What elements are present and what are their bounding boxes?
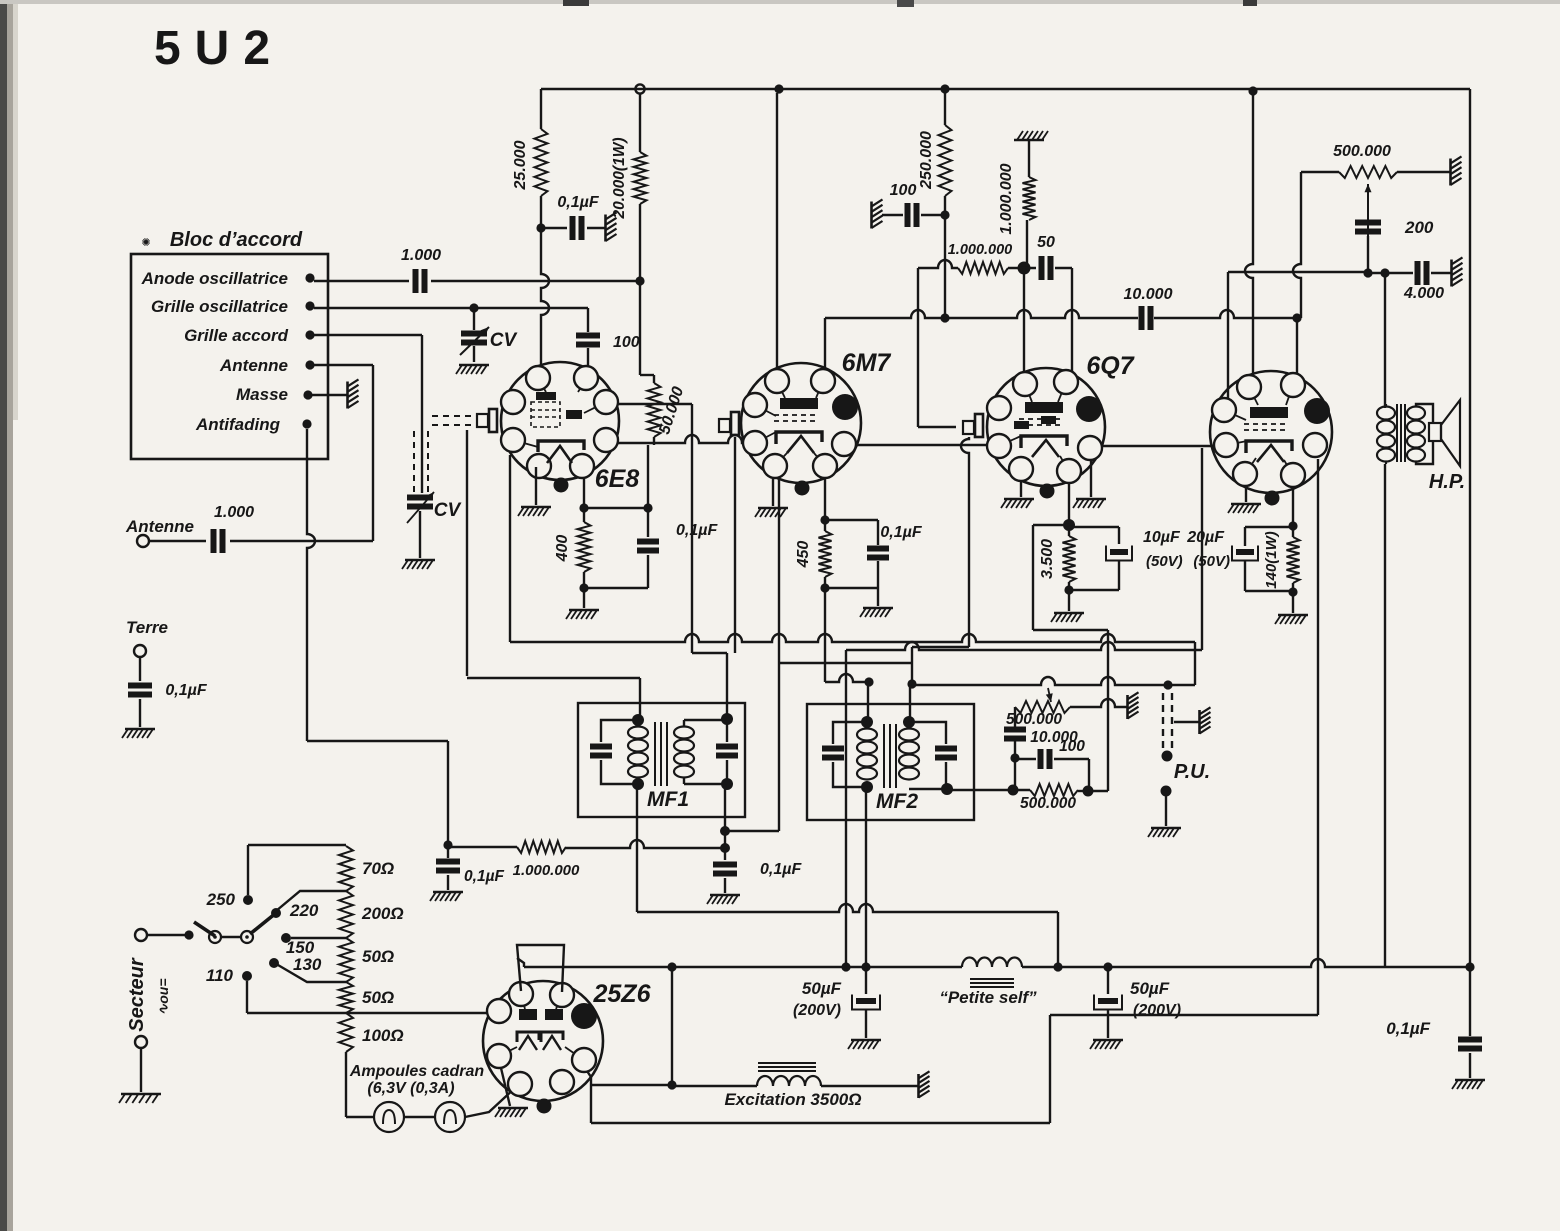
junction bbox=[903, 716, 915, 728]
wire 6Q7 feed bbox=[1023, 268, 1025, 372]
wire MF2 prim bottom bbox=[865, 787, 867, 967]
svg-text:100: 100 bbox=[613, 334, 640, 351]
wire 6Q7 avc loop bbox=[1033, 524, 1069, 526]
svg-text:MF2: MF2 bbox=[876, 790, 918, 813]
wire bbox=[1071, 268, 1073, 373]
resistor pot 500.000 bbox=[1015, 701, 1070, 713]
resistor rheostat 50a bbox=[339, 938, 353, 982]
junction bbox=[940, 210, 949, 219]
capacitor 100 bbox=[905, 203, 911, 227]
speaker H.P. bbox=[1416, 404, 1433, 424]
junction bbox=[632, 714, 644, 726]
svg-text:500.000: 500.000 bbox=[1020, 795, 1076, 812]
junction bbox=[720, 843, 730, 853]
ground bbox=[710, 894, 740, 897]
wire HP prim bottom bbox=[1384, 464, 1386, 966]
tube 6E8 innards bbox=[536, 392, 556, 400]
transformer MF1 box bbox=[578, 703, 745, 817]
capacitor 10uF bbox=[1069, 526, 1119, 528]
ground secteur bbox=[121, 1093, 161, 1096]
wire MF1 sec bottom bbox=[724, 784, 726, 848]
masse bbox=[1450, 260, 1453, 287]
junction bbox=[941, 783, 953, 795]
wire 150 bbox=[291, 937, 346, 939]
wire 25k to 6E8 bbox=[541, 228, 549, 367]
masse bbox=[870, 202, 873, 229]
wire MF2 sec feed bbox=[909, 684, 911, 722]
junction bbox=[861, 716, 873, 728]
resistor 450 bbox=[819, 531, 832, 577]
wiper arrow 2 bbox=[1367, 184, 1369, 252]
node masse bbox=[303, 390, 312, 399]
wire bbox=[1292, 487, 1294, 526]
svg-text:50µF: 50µF bbox=[802, 979, 842, 998]
junction bbox=[1162, 751, 1173, 762]
wire bbox=[314, 280, 409, 282]
tube 25Z6 innards bbox=[519, 1009, 537, 1020]
resistor 250.000 bbox=[944, 93, 946, 125]
junction rail-right bbox=[1248, 86, 1257, 95]
wire bbox=[345, 1052, 347, 1117]
wire bbox=[1008, 267, 1036, 269]
MF1 secondary coil bbox=[674, 727, 694, 739]
junction bbox=[721, 778, 733, 790]
pickup P.U. jack bbox=[1162, 693, 1164, 750]
wire bbox=[587, 227, 606, 229]
MF1 left cap bbox=[601, 720, 638, 742]
ground 1M top bbox=[1014, 139, 1044, 142]
junction bbox=[1064, 585, 1073, 594]
wire anode row bbox=[524, 966, 962, 968]
ground bbox=[877, 588, 879, 606]
wire bbox=[590, 1085, 592, 1123]
svg-text:Terre: Terre bbox=[126, 618, 168, 637]
capacitor 100 bbox=[576, 333, 600, 339]
masse bbox=[346, 382, 349, 409]
wire bbox=[473, 346, 475, 362]
wire heater 6Q7-out bbox=[1101, 445, 1215, 447]
wire bbox=[1165, 796, 1167, 826]
masse bbox=[917, 1074, 920, 1098]
node B+ rail bbox=[541, 88, 1470, 90]
capacitor 0,1uF terre bbox=[128, 683, 152, 689]
svg-text:130: 130 bbox=[293, 955, 322, 974]
tube 6Q7 innards bbox=[1025, 402, 1063, 413]
ground 6E8 bbox=[535, 467, 537, 505]
wire bbox=[587, 308, 589, 332]
junction bbox=[720, 826, 730, 836]
svg-text:10.000: 10.000 bbox=[1124, 286, 1173, 303]
wire bbox=[149, 540, 206, 542]
wire bbox=[541, 227, 567, 229]
svg-text:MF1: MF1 bbox=[647, 788, 689, 811]
ground 6Q7 b bbox=[1090, 460, 1092, 497]
svg-text:1.000.000: 1.000.000 bbox=[513, 862, 580, 879]
resistor rheostat 100 bbox=[339, 1013, 353, 1052]
wire bbox=[918, 260, 958, 268]
shielded line dashed bbox=[432, 415, 476, 417]
wire 250 bbox=[247, 845, 249, 895]
transformer MF2 box bbox=[807, 704, 974, 820]
node antifading bbox=[302, 419, 311, 428]
node anode osc bbox=[305, 273, 314, 282]
wire bbox=[867, 682, 869, 722]
junction bbox=[1103, 962, 1112, 971]
svg-text:Grille oscillatrice: Grille oscillatrice bbox=[151, 297, 288, 316]
wire bbox=[1070, 699, 1127, 707]
wire bbox=[419, 511, 421, 558]
svg-text:Secteur: Secteur bbox=[126, 957, 148, 1032]
svg-text:Excitation 3500Ω: Excitation 3500Ω bbox=[724, 1090, 861, 1109]
wire bbox=[1245, 93, 1253, 375]
junction rail-250k bbox=[940, 84, 949, 93]
wire bbox=[824, 477, 826, 520]
wire HP feed bbox=[1384, 273, 1386, 408]
wire bbox=[583, 572, 585, 588]
resistor 1.000.000 bbox=[1028, 140, 1030, 177]
svg-text:140(1W): 140(1W) bbox=[1263, 531, 1280, 589]
capacitor 10.000 bbox=[1139, 306, 1145, 330]
ground 25Z6 bbox=[501, 1068, 510, 1106]
wire bbox=[1367, 236, 1369, 273]
capacitor 0,1uF bbox=[570, 216, 576, 240]
wire bbox=[821, 1085, 918, 1087]
wire 6M7 grid to MF1 bbox=[734, 437, 736, 653]
inductor petite self coils bbox=[962, 958, 1022, 968]
masse bbox=[1449, 159, 1452, 186]
wire 110 bbox=[246, 981, 248, 1013]
junction bbox=[820, 515, 829, 524]
wire MF2 sec bottom out bbox=[947, 789, 1013, 791]
svg-text:0,1µF: 0,1µF bbox=[464, 868, 504, 885]
transformer HP primary bbox=[1377, 407, 1395, 420]
svg-text:1.000: 1.000 bbox=[401, 247, 441, 264]
wire bbox=[421, 335, 423, 493]
junction PU top bbox=[1163, 680, 1172, 689]
wire 6Q7 grid down bbox=[961, 437, 969, 647]
svg-text:Antenne: Antenne bbox=[219, 356, 288, 375]
wire screen row bbox=[824, 318, 826, 368]
wire det vertical bbox=[1107, 630, 1109, 791]
capacitor 200 bbox=[1355, 220, 1381, 226]
wire MF1 left feed bbox=[466, 430, 468, 676]
junction bbox=[907, 679, 916, 688]
wire bbox=[1292, 592, 1294, 613]
node grille osc bbox=[305, 301, 314, 310]
svg-text:0,1µF: 0,1µF bbox=[880, 524, 922, 541]
wire bbox=[944, 196, 946, 318]
svg-text:50µF: 50µF bbox=[1130, 979, 1170, 998]
resistor rheostat 70 bbox=[339, 846, 353, 891]
wire row 271 bbox=[1228, 271, 1368, 273]
box Bloc d'accord bbox=[131, 254, 328, 459]
masse bbox=[1198, 710, 1201, 734]
junction bbox=[1288, 521, 1297, 530]
junction bbox=[1465, 962, 1474, 971]
node antenne bbox=[305, 360, 314, 369]
junction bbox=[1380, 268, 1389, 277]
grid cap plug 6E8 bbox=[477, 414, 488, 427]
svg-text:H.P.: H.P. bbox=[1429, 471, 1465, 493]
wire bbox=[1026, 220, 1028, 266]
svg-text:50Ω: 50Ω bbox=[362, 988, 394, 1007]
capacitor 0,1uF right bbox=[724, 848, 726, 860]
junction bbox=[1018, 262, 1031, 275]
svg-text:6E8: 6E8 bbox=[595, 465, 640, 493]
resistor rheostat 50b bbox=[339, 982, 353, 1013]
wire bbox=[1068, 525, 1070, 536]
capacitor 50 bbox=[1039, 256, 1045, 280]
MF1 core bbox=[654, 722, 656, 786]
node grille accord bbox=[305, 330, 314, 339]
svg-text:3.500: 3.500 bbox=[1039, 539, 1056, 579]
wire heater down bbox=[1201, 448, 1203, 650]
svg-text:0,1µF: 0,1µF bbox=[165, 682, 207, 699]
wire bbox=[653, 437, 655, 445]
wire bbox=[1293, 172, 1301, 318]
junction bbox=[632, 778, 644, 790]
tube output bbox=[1210, 371, 1332, 493]
scan edge artifact left bbox=[0, 0, 7, 1231]
wire out plate down bbox=[1317, 459, 1319, 1015]
capacitor 50uF a bbox=[865, 967, 867, 994]
ground 6M7 bbox=[772, 478, 774, 506]
ground bbox=[1093, 1039, 1123, 1042]
junction rail-20k bbox=[635, 84, 644, 93]
wire return row bbox=[637, 904, 1058, 912]
wire antifading bbox=[307, 429, 315, 741]
wire bottom loop bbox=[1050, 1014, 1318, 1016]
capacitor CV1 bbox=[473, 308, 475, 330]
svg-text:6M7: 6M7 bbox=[842, 349, 892, 377]
svg-text:220: 220 bbox=[289, 901, 319, 920]
svg-text:20.000(1W): 20.000(1W) bbox=[611, 138, 628, 220]
svg-text:∿ou=: ∿ou= bbox=[155, 978, 171, 1015]
svg-text:400: 400 bbox=[554, 535, 571, 563]
switch pivot 2 bbox=[241, 931, 253, 943]
MF2 primary coil bbox=[857, 729, 877, 741]
wire bbox=[312, 394, 347, 396]
ground bbox=[1278, 614, 1308, 617]
transformer HP core bbox=[1396, 404, 1398, 462]
wire bbox=[1296, 318, 1298, 373]
wire heater 6E8-6M7 bbox=[617, 435, 744, 443]
svg-text:20µF: 20µF bbox=[1186, 529, 1225, 546]
resistor 3.500 bbox=[1063, 536, 1076, 582]
resistor 500.000 det bbox=[1013, 789, 1030, 791]
grid cap plug 6Q7 bbox=[963, 421, 974, 434]
junction bbox=[1083, 786, 1094, 797]
svg-text:6Q7: 6Q7 bbox=[1086, 352, 1134, 380]
junction bbox=[1053, 962, 1062, 971]
svg-text:Antenne: Antenne bbox=[125, 517, 194, 536]
svg-text:1.000: 1.000 bbox=[214, 504, 254, 521]
svg-text:(200V): (200V) bbox=[1133, 1002, 1181, 1019]
wire bbox=[647, 445, 649, 508]
wire bbox=[824, 520, 826, 531]
stud 220 bbox=[271, 908, 281, 918]
svg-text:0,1µF: 0,1µF bbox=[557, 194, 599, 211]
junction bbox=[1363, 268, 1372, 277]
resistor 25.000 bbox=[535, 129, 548, 196]
wire bbox=[140, 1048, 142, 1092]
junction bbox=[841, 962, 850, 971]
wire 6E8 anode to MF1 bbox=[618, 403, 692, 405]
stud 130 bbox=[269, 958, 279, 968]
tube output innards bbox=[1250, 407, 1288, 418]
svg-text:200: 200 bbox=[1404, 218, 1434, 237]
wire bbox=[584, 507, 648, 509]
svg-text:0,1µF: 0,1µF bbox=[760, 861, 802, 878]
junction bbox=[184, 930, 193, 939]
ground bbox=[851, 1039, 881, 1042]
lamp 1 bbox=[374, 1102, 404, 1132]
wire bbox=[1068, 590, 1070, 611]
switch pivot 1 bbox=[209, 931, 221, 943]
svg-text:25.000: 25.000 bbox=[512, 140, 529, 190]
svg-text:5U2: 5U2 bbox=[154, 22, 270, 75]
svg-text:10µF: 10µF bbox=[1143, 529, 1181, 546]
capacitor 0,1uF out bbox=[1469, 967, 1471, 1036]
capacitor 20uF bbox=[1245, 526, 1293, 528]
wire 130 bbox=[278, 965, 346, 982]
wire bbox=[1055, 267, 1072, 269]
ground bbox=[459, 364, 489, 367]
capacitor CV2 bbox=[407, 495, 433, 501]
wire 6M7 to band bbox=[778, 478, 780, 663]
svg-text:70Ω: 70Ω bbox=[362, 859, 394, 878]
wire heater 6M7-6Q7 bbox=[855, 444, 988, 446]
wire bbox=[639, 93, 641, 152]
wire grid row bbox=[912, 677, 1168, 685]
svg-text:4.000: 4.000 bbox=[1403, 285, 1444, 302]
ground bbox=[1054, 612, 1084, 615]
junction bbox=[1063, 519, 1075, 531]
ground bbox=[125, 728, 155, 731]
capacitor 1.000 bbox=[413, 269, 419, 293]
MF2 core bbox=[883, 724, 885, 788]
resistor rheostat 200 bbox=[339, 891, 353, 938]
wire bbox=[431, 280, 640, 282]
wire bbox=[1014, 741, 1016, 758]
junction bbox=[721, 713, 733, 725]
wire bbox=[314, 334, 422, 336]
25Z6 cathode jog bbox=[587, 1071, 591, 1085]
masse bbox=[604, 215, 607, 242]
wire bbox=[587, 348, 589, 366]
MF1 primary coil bbox=[628, 727, 648, 739]
wire 6M7 to MF2 bbox=[824, 588, 826, 682]
junction bbox=[1288, 587, 1297, 596]
wire bbox=[639, 204, 641, 281]
wire bbox=[314, 364, 373, 366]
resistor 400 bbox=[578, 522, 591, 572]
capacitor 0,1uF 6M7 bbox=[825, 519, 878, 521]
wire bbox=[1088, 790, 1108, 792]
capacitor 10.000 det bbox=[1004, 727, 1026, 733]
resistor 140 (1W) bbox=[1287, 537, 1300, 583]
resistor 1.000.000 row bbox=[448, 846, 517, 848]
wire bbox=[230, 540, 373, 542]
capacitor 50uF b bbox=[1107, 967, 1109, 994]
wire bbox=[639, 281, 641, 375]
svg-text:Ampoules cadran: Ampoules cadran bbox=[349, 1063, 484, 1080]
junction bbox=[820, 583, 829, 592]
wire bbox=[139, 657, 141, 681]
wire bbox=[221, 936, 241, 938]
wire bbox=[725, 830, 779, 832]
resistor 20.000 (1W) bbox=[634, 152, 647, 204]
svg-text:CV: CV bbox=[434, 500, 462, 521]
ground PU bbox=[1151, 827, 1181, 830]
MF2 right cap bbox=[909, 722, 946, 744]
junction bbox=[643, 503, 652, 512]
tube 6E8 bbox=[501, 362, 619, 480]
svg-text:50: 50 bbox=[1037, 234, 1055, 251]
ground bbox=[569, 609, 599, 612]
junction bbox=[635, 276, 644, 285]
junction bbox=[940, 313, 949, 322]
wire 6M7 anode feed bbox=[776, 93, 778, 369]
svg-text:450: 450 bbox=[795, 541, 812, 569]
svg-text:250: 250 bbox=[206, 890, 236, 909]
ground 6Q7 a bbox=[1020, 481, 1022, 497]
resistor 50.000 bbox=[648, 383, 661, 437]
junction bbox=[579, 583, 588, 592]
junction bbox=[667, 962, 676, 971]
wire bbox=[1014, 707, 1016, 727]
svg-text:250.000: 250.000 bbox=[918, 131, 935, 190]
lamp 2 bbox=[435, 1102, 465, 1132]
masse bbox=[1126, 695, 1129, 719]
wire PU shield bbox=[1174, 721, 1200, 723]
junction bbox=[1161, 786, 1172, 797]
svg-text:P.U.: P.U. bbox=[1174, 761, 1210, 783]
capacitor 0,1uF left bbox=[447, 845, 449, 858]
wire bbox=[921, 214, 945, 216]
wire MF2 prim feed bbox=[825, 674, 869, 682]
wire bbox=[1068, 483, 1070, 525]
wire bbox=[1431, 272, 1452, 274]
svg-text:200Ω: 200Ω bbox=[361, 904, 404, 923]
switch lever 2 bbox=[250, 913, 276, 934]
wire bbox=[314, 307, 588, 309]
svg-text:(200V): (200V) bbox=[793, 1002, 841, 1019]
tube 6Q7 bbox=[987, 368, 1105, 486]
svg-text:500.000: 500.000 bbox=[1333, 143, 1391, 160]
wire V5a bbox=[917, 268, 919, 427]
svg-text:(50V): (50V) bbox=[1193, 553, 1230, 570]
wire bbox=[404, 1116, 435, 1118]
tube 6M7 innards bbox=[780, 398, 818, 409]
svg-text:Antifading: Antifading bbox=[195, 415, 281, 434]
svg-text:(6,3V (0,3A): (6,3V (0,3A) bbox=[367, 1080, 454, 1097]
capacitor 1.000 antenna bbox=[211, 529, 217, 553]
junction bbox=[861, 781, 873, 793]
junction bbox=[469, 303, 478, 312]
svg-text:Anode oscillatrice: Anode oscillatrice bbox=[141, 269, 288, 288]
MF1 top stubs bbox=[637, 720, 639, 726]
svg-text:0,1µF: 0,1µF bbox=[1386, 1019, 1430, 1038]
wire bbox=[1368, 272, 1413, 274]
svg-text:100: 100 bbox=[890, 182, 917, 199]
svg-text:1.000.000: 1.000.000 bbox=[998, 163, 1015, 234]
terminal terre bbox=[134, 645, 146, 657]
terminal antenne bbox=[137, 535, 149, 547]
junction bbox=[579, 503, 588, 512]
wire bbox=[540, 196, 542, 228]
wire bbox=[583, 477, 585, 508]
